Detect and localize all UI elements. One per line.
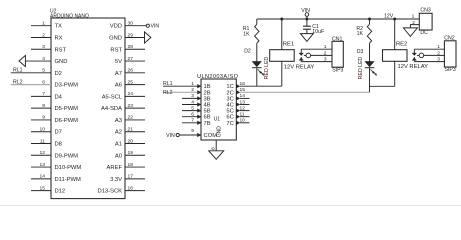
svg-text:A1: A1: [115, 142, 122, 148]
svg-text:3: 3: [324, 57, 327, 63]
svg-text:D6-PWM: D6-PWM: [55, 118, 79, 124]
svg-text:RL2: RL2: [13, 80, 23, 86]
svg-text:28: 28: [128, 44, 134, 50]
svg-text:8: 8: [211, 147, 217, 150]
svg-text:3: 3: [42, 44, 45, 50]
svg-text:D2: D2: [55, 71, 62, 77]
svg-text:D10-PWM: D10-PWM: [55, 165, 82, 171]
svg-text:2: 2: [437, 50, 440, 56]
svg-text:D3: D3: [357, 49, 364, 55]
svg-text:5C: 5C: [226, 109, 233, 115]
svg-text:TX: TX: [55, 24, 63, 30]
svg-text:CN3: CN3: [420, 7, 430, 13]
svg-text:1: 1: [437, 44, 440, 50]
svg-text:26: 26: [128, 68, 134, 74]
svg-text:VIN: VIN: [301, 8, 310, 14]
svg-text:VDD: VDD: [110, 24, 122, 30]
svg-text:7: 7: [42, 91, 45, 97]
svg-text:DC: DC: [420, 30, 428, 36]
svg-text:GND: GND: [55, 59, 68, 65]
svg-text:10: 10: [40, 127, 46, 133]
svg-text:1: 1: [412, 13, 415, 19]
svg-text:2C: 2C: [226, 90, 233, 96]
svg-text:2B: 2B: [204, 90, 211, 96]
svg-text:VIN: VIN: [151, 24, 160, 30]
svg-text:RX: RX: [55, 35, 63, 41]
svg-text:RE2: RE2: [396, 42, 407, 48]
svg-text:4B: 4B: [204, 103, 211, 109]
svg-text:2: 2: [324, 50, 327, 56]
svg-text:15: 15: [40, 185, 46, 191]
svg-text:18: 18: [128, 162, 134, 168]
svg-text:8: 8: [42, 103, 45, 109]
svg-text:9: 9: [42, 115, 45, 121]
svg-text:13: 13: [40, 162, 46, 168]
svg-text:23: 23: [128, 103, 134, 109]
svg-text:RST: RST: [55, 47, 67, 53]
svg-text:A5-SCL: A5-SCL: [102, 94, 123, 100]
svg-text:A0: A0: [115, 153, 122, 159]
svg-text:1K: 1K: [357, 31, 364, 37]
svg-text:9: 9: [191, 128, 194, 134]
svg-text:A7: A7: [115, 71, 122, 77]
svg-text:19: 19: [128, 150, 134, 156]
svg-text:3.3V: 3.3V: [110, 177, 122, 183]
svg-text:A4-SDA: A4-SDA: [101, 106, 122, 112]
svg-text:RE1: RE1: [283, 42, 294, 48]
svg-text:D9-PWM: D9-PWM: [55, 153, 79, 159]
svg-text:6B: 6B: [204, 115, 211, 121]
svg-text:CN1: CN1: [332, 36, 342, 42]
svg-text:D5-PWM: D5-PWM: [55, 106, 79, 112]
svg-text:2: 2: [42, 32, 45, 38]
svg-text:6C: 6C: [226, 115, 233, 121]
svg-text:2: 2: [412, 20, 415, 26]
svg-text:D13-SCK: D13-SCK: [98, 189, 123, 195]
svg-text:12V RELAY: 12V RELAY: [398, 64, 429, 70]
svg-text:CN2: CN2: [444, 36, 454, 42]
svg-text:RST: RST: [110, 47, 122, 53]
svg-text:5V: 5V: [115, 59, 122, 65]
svg-text:RED LED: RED LED: [358, 56, 364, 79]
svg-text:17: 17: [128, 174, 134, 180]
svg-text:16: 16: [128, 185, 134, 191]
svg-text:24: 24: [128, 91, 134, 97]
svg-text:SIP3: SIP3: [445, 67, 456, 73]
svg-text:3: 3: [437, 57, 440, 63]
svg-text:12: 12: [40, 150, 46, 156]
svg-text:1: 1: [42, 21, 45, 27]
svg-text:D7: D7: [55, 130, 62, 136]
svg-text:VIN: VIN: [166, 133, 175, 139]
svg-text:COM: COM: [204, 133, 218, 139]
svg-text:D12: D12: [55, 189, 66, 195]
svg-text:3C: 3C: [226, 96, 233, 102]
svg-text:ARDUINO NANO: ARDUINO NANO: [50, 13, 89, 19]
svg-text:D11-PWM: D11-PWM: [55, 177, 81, 183]
svg-text:GND: GND: [109, 35, 122, 41]
svg-text:D2: D2: [244, 49, 251, 55]
svg-text:27: 27: [128, 56, 134, 62]
svg-text:D4: D4: [55, 94, 63, 100]
svg-text:22: 22: [128, 115, 134, 121]
svg-text:1: 1: [324, 44, 327, 50]
svg-text:U1: U1: [214, 116, 221, 122]
svg-text:12V: 12V: [384, 13, 394, 19]
svg-text:ULN2003A/SO: ULN2003A/SO: [197, 74, 239, 80]
svg-text:7B: 7B: [204, 121, 211, 127]
svg-text:SIP3: SIP3: [332, 67, 343, 73]
svg-text:D3-PWM: D3-PWM: [55, 83, 79, 89]
svg-text:GND: GND: [216, 126, 222, 138]
svg-text:25: 25: [128, 79, 134, 85]
svg-text:5B: 5B: [204, 109, 211, 115]
svg-text:11: 11: [40, 138, 45, 144]
svg-text:10uF: 10uF: [312, 29, 324, 35]
svg-text:RL1: RL1: [13, 68, 23, 74]
svg-text:21: 21: [128, 127, 134, 133]
svg-text:A2: A2: [115, 130, 122, 136]
svg-text:RL2: RL2: [163, 90, 173, 96]
svg-text:14: 14: [40, 174, 46, 180]
svg-text:20: 20: [128, 138, 134, 144]
svg-text:D8: D8: [55, 142, 62, 148]
svg-text:1K: 1K: [243, 32, 250, 38]
svg-text:A6: A6: [115, 83, 122, 89]
svg-text:3B: 3B: [204, 96, 211, 102]
svg-text:7C: 7C: [226, 121, 233, 127]
svg-text:1B: 1B: [204, 84, 211, 90]
svg-text:12V RELAY: 12V RELAY: [284, 65, 315, 71]
svg-text:RL1: RL1: [163, 81, 173, 87]
svg-text:4C: 4C: [226, 103, 233, 109]
svg-text:A3: A3: [115, 118, 122, 124]
svg-text:AREF: AREF: [107, 165, 123, 171]
svg-text:1C: 1C: [226, 84, 233, 90]
